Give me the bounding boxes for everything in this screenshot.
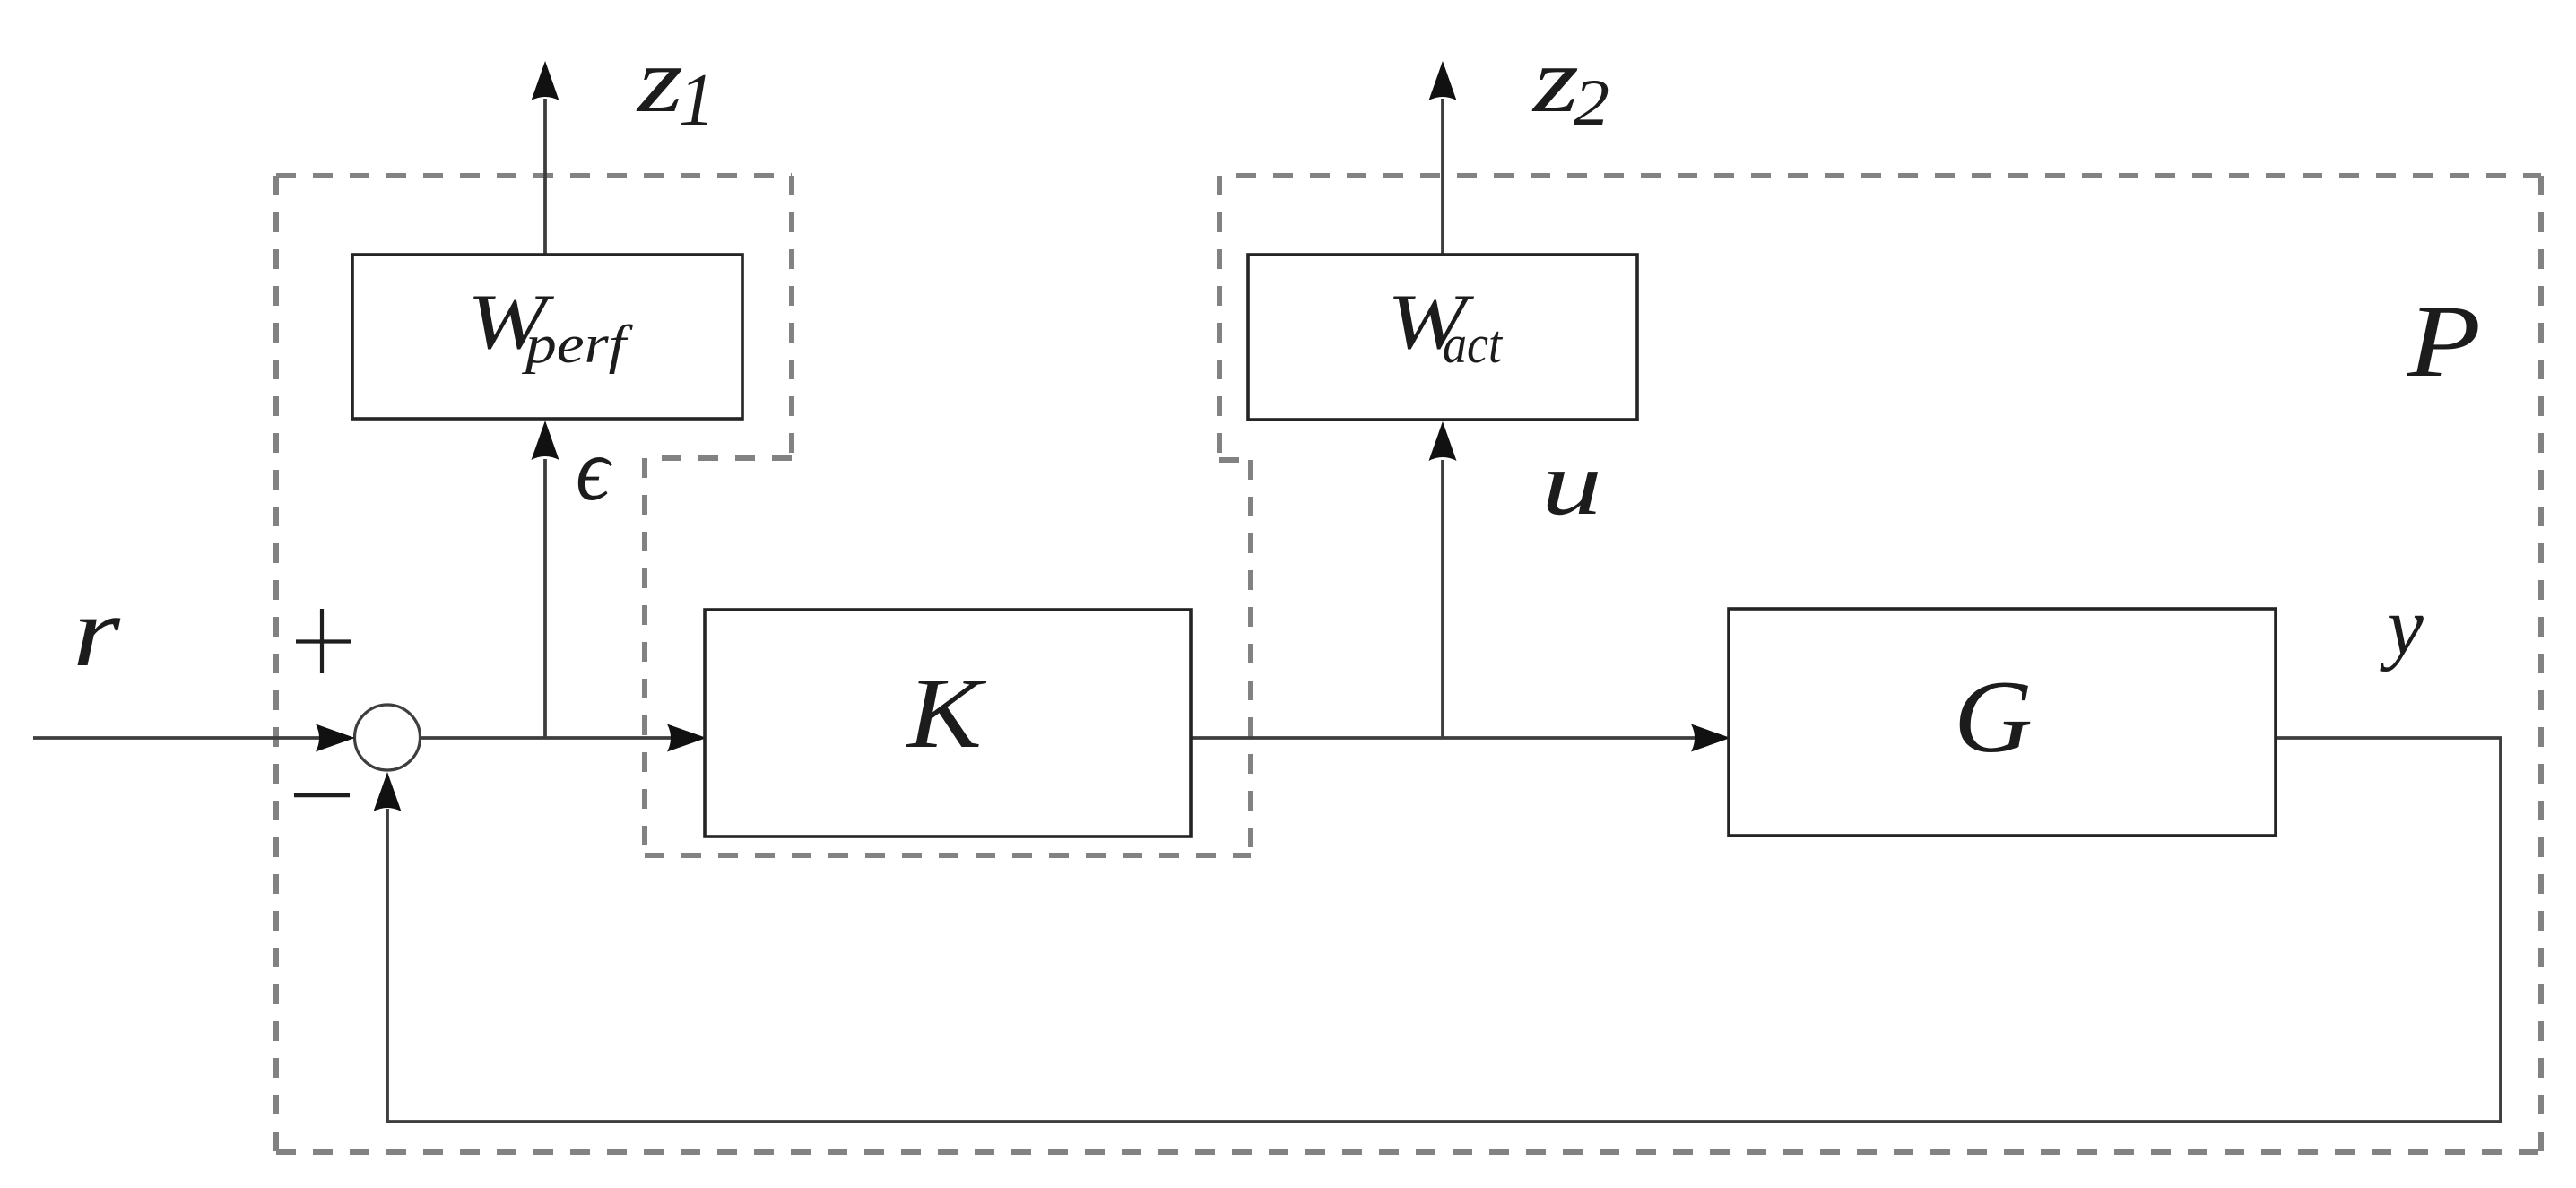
P boundary: top edge right lobe bbox=[1219, 173, 2541, 178]
P boundary: top edge left lobe bbox=[276, 173, 792, 178]
P boundary: jog left toward K box bbox=[645, 455, 792, 461]
svg-text:z: z bbox=[635, 29, 683, 132]
arrow feedback into sum bottom bbox=[374, 772, 402, 811]
block W_perf bbox=[352, 255, 742, 419]
P boundary: left edge of K notch bbox=[642, 458, 647, 855]
P boundary: right edge of K notch bbox=[1248, 460, 1253, 855]
arrow into K bbox=[667, 724, 707, 752]
plus sign bbox=[296, 609, 351, 673]
P boundary: jog at right of K notch bbox=[1219, 457, 1251, 463]
svg-text:r: r bbox=[73, 577, 120, 688]
wire u branch bbox=[1441, 460, 1444, 737]
svg-text:act: act bbox=[1443, 315, 1503, 374]
minus sign bbox=[294, 793, 350, 798]
generalized plant P dashed boundary bbox=[276, 176, 2541, 1152]
wire z1 bbox=[543, 99, 547, 255]
svg-text:y: y bbox=[2380, 580, 2424, 672]
svg-text:G: G bbox=[1954, 660, 2033, 774]
P boundary: left edge of right lobe bbox=[1217, 176, 1222, 460]
svg-text:ϵ: ϵ bbox=[576, 420, 612, 519]
block K bbox=[705, 610, 1191, 837]
wire y feedback bbox=[387, 738, 2501, 1122]
wire r input bbox=[33, 736, 325, 740]
wire epsilon branch bbox=[543, 459, 547, 737]
wire K to G bbox=[1191, 736, 1695, 740]
arrow r into sum bbox=[316, 724, 355, 752]
P boundary: left edge bbox=[273, 176, 279, 1152]
block W_act bbox=[1248, 255, 1637, 420]
svg-text:z: z bbox=[1531, 29, 1579, 132]
arrow into G bbox=[1691, 724, 1730, 752]
arrow z1 bbox=[532, 61, 559, 100]
svg-text:K: K bbox=[906, 658, 987, 769]
arrow epsilon into W_perf bbox=[532, 421, 559, 460]
wire z2 bbox=[1441, 99, 1444, 255]
svg-text:u: u bbox=[1541, 433, 1602, 534]
P boundary: bottom edge bbox=[276, 1149, 2541, 1155]
P boundary: right edge bbox=[2538, 176, 2544, 1152]
arrow u into W_act bbox=[1429, 421, 1457, 461]
P boundary: bottom edge of K notch bbox=[645, 853, 1251, 858]
svg-text:perf: perf bbox=[521, 315, 633, 374]
svg-text:1: 1 bbox=[679, 58, 715, 142]
svg-text:P: P bbox=[2407, 284, 2481, 398]
summing junction bbox=[355, 705, 421, 770]
block G bbox=[1729, 609, 2276, 836]
wire sum to K bbox=[421, 736, 672, 740]
svg-text:2: 2 bbox=[1574, 66, 1609, 140]
arrow z2 bbox=[1429, 61, 1457, 100]
P boundary: right edge of W_perf lobe bbox=[789, 176, 794, 458]
